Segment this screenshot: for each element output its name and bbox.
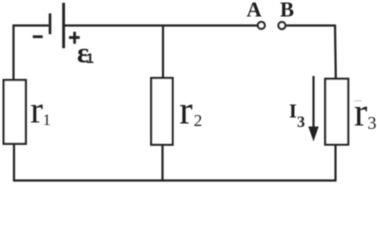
svg-text:B: B	[280, 0, 294, 22]
wire right vertical down to r3	[334, 25, 337, 79]
svg-text:3: 3	[297, 114, 305, 131]
battery minus sign	[33, 35, 43, 38]
wire bottom horizontal return	[13, 179, 337, 181]
contact circle node B	[278, 22, 285, 29]
resistor r2 body	[151, 78, 172, 145]
wire r1 bottom stub	[13, 144, 15, 181]
wire r3 bottom stub	[334, 145, 336, 181]
svg-text:r: r	[179, 88, 192, 133]
svg-text:I: I	[289, 101, 297, 123]
svg-text:3: 3	[368, 113, 377, 133]
resistor r1 body	[4, 80, 26, 144]
wire top-left horizontal from corner to battery negative plate	[13, 24, 49, 26]
current I3 arrow line	[312, 76, 314, 128]
wire left vertical down to r1	[12, 25, 14, 81]
wire from B to top-right corner	[286, 24, 335, 26]
svg-text:1: 1	[86, 50, 94, 66]
svg-text:1: 1	[43, 112, 51, 129]
battery E1 negative short plate	[49, 13, 52, 34]
battery plus sign	[69, 32, 80, 44]
battery E1 positive long plate	[62, 3, 65, 48]
svg-text:r: r	[30, 90, 43, 132]
contact circle node A	[258, 22, 265, 29]
svg-text:r: r	[354, 90, 367, 135]
svg-text:A: A	[247, 0, 263, 22]
current I3 arrowhead	[308, 127, 318, 142]
resistor r3 body	[325, 79, 348, 145]
wire r2 bottom stub	[161, 145, 163, 181]
wire top horizontal from battery to contact A	[64, 24, 258, 26]
svg-text:2: 2	[194, 111, 203, 130]
faint macron artifact above r3	[354, 100, 362, 101]
wire junction stub down to r2	[162, 26, 164, 79]
